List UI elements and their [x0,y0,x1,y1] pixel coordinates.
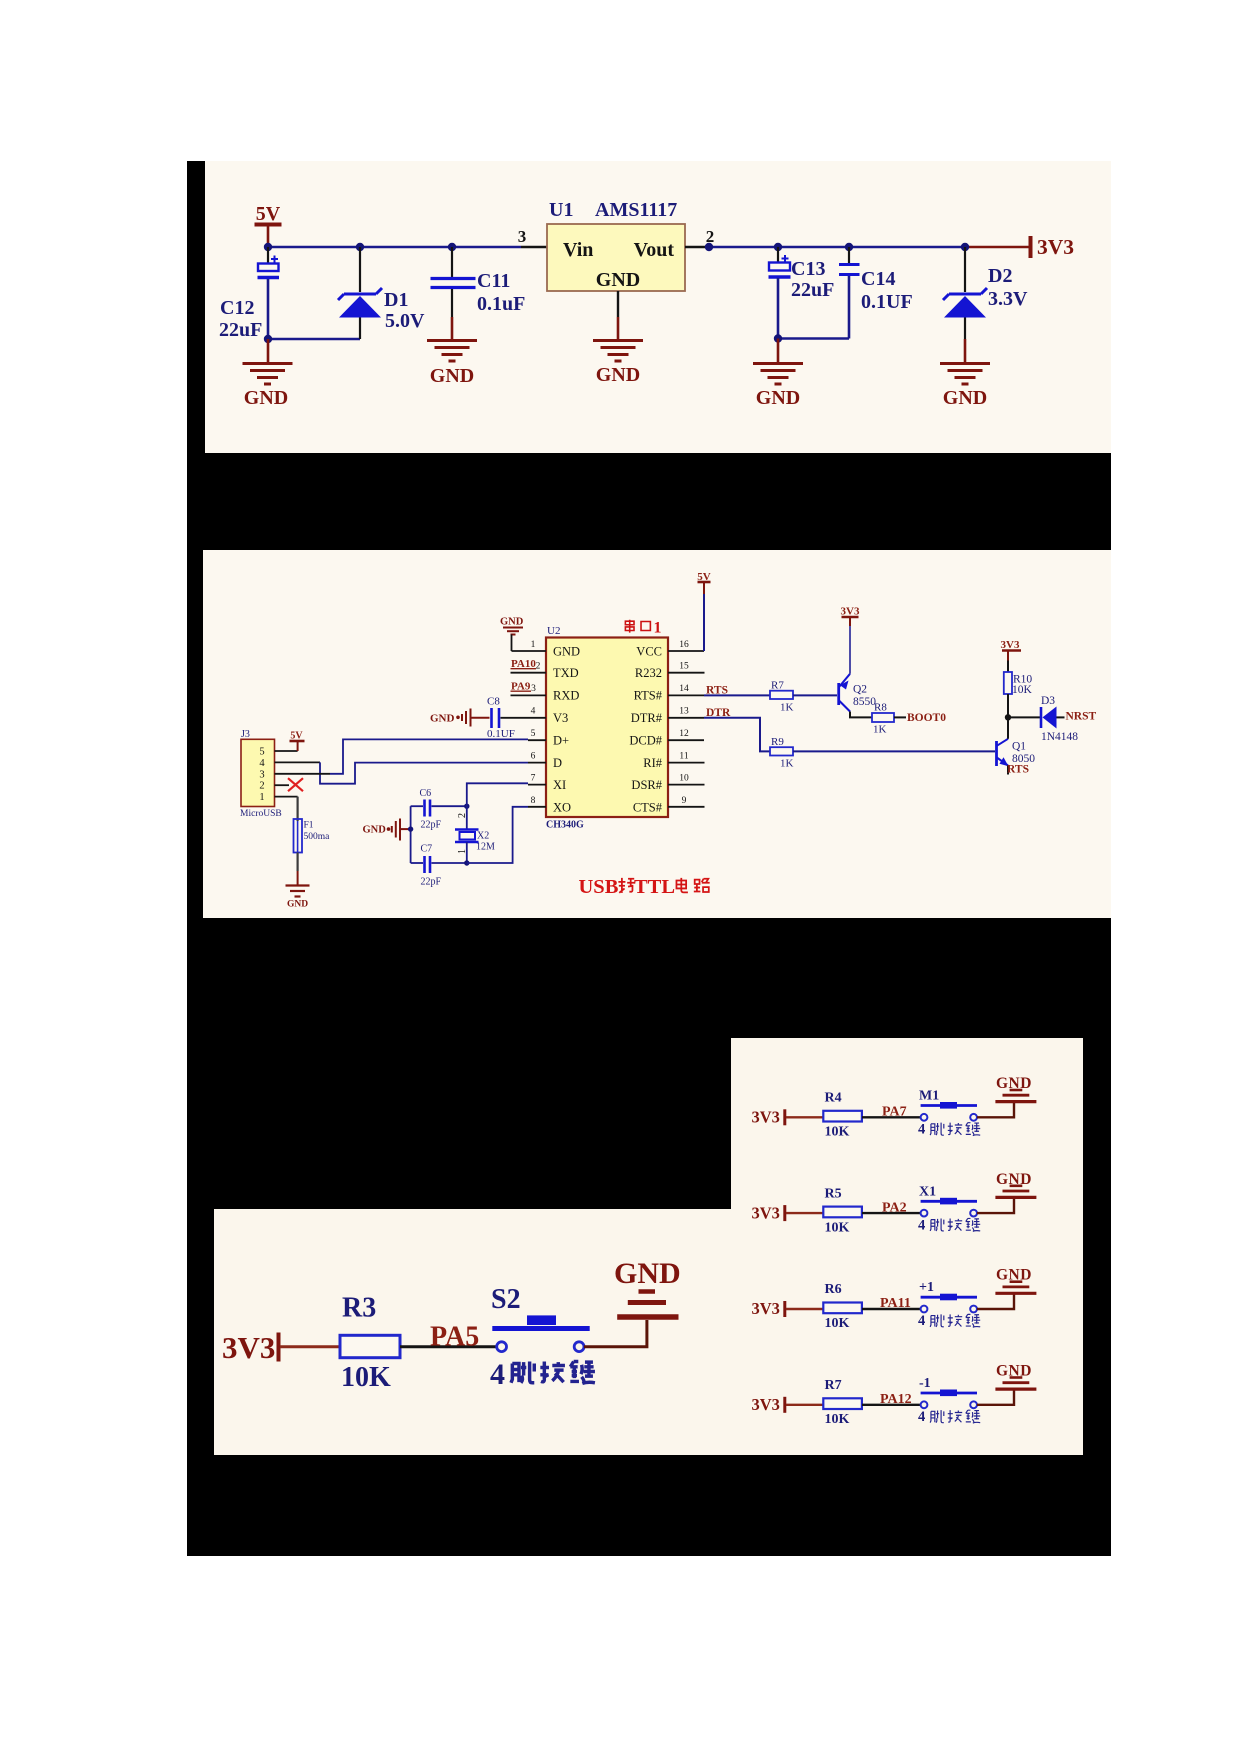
svg-text:1K: 1K [873,724,887,736]
node: C13 junction [774,243,782,251]
svg-text:XO: XO [553,801,571,815]
svg-text:4: 4 [918,1409,925,1425]
svg-text:3.3V: 3.3V [988,288,1028,310]
svg-text:GND: GND [996,1075,1032,1092]
svg-text:8: 8 [531,796,536,806]
svg-text:10K: 10K [1012,684,1033,696]
svg-text:C6: C6 [420,788,432,799]
title USB转TTL电路 [579,876,710,898]
node: C6/X2 junction [464,804,469,809]
svg-text:0.1uF: 0.1uF [477,293,525,315]
svg-text:1: 1 [259,792,264,803]
svg-text:C11: C11 [477,270,510,292]
svg-text:C13: C13 [791,258,825,280]
svg-text:3V3: 3V3 [752,1108,780,1127]
svg-text:0.1UF: 0.1UF [861,291,913,313]
svg-text:1: 1 [531,640,536,650]
svg-text:USB: USB [579,876,619,898]
node: Vout junction [705,243,713,251]
wire: junction to D3 [1008,716,1040,718]
U2 right pin stubs [668,651,705,807]
svg-text:R5: R5 [825,1186,842,1201]
svg-text:PA7: PA7 [882,1105,907,1120]
svg-text:GND: GND [596,269,640,291]
capacitor C6 22pF [411,805,423,807]
svg-text:GND: GND [943,387,987,409]
svg-text:U1: U1 [549,199,573,221]
svg-text:13: 13 [679,707,689,717]
svg-text:D+: D+ [553,734,569,748]
ground GND under C11 [427,317,477,361]
resistor R5 10K [823,1207,862,1218]
svg-text:R232: R232 [635,666,662,680]
svg-text:Q2: Q2 [853,684,867,696]
ground GND row3 (inverted) [995,1282,1036,1294]
capacitor C11 0.1uF [431,247,526,317]
svg-text:500ma: 500ma [304,832,331,842]
title 串口1 [625,620,650,633]
svg-text:1: 1 [654,620,662,637]
svg-text:4: 4 [918,1122,925,1138]
svg-text:2: 2 [536,662,541,672]
ground GND under C12 [243,339,293,384]
svg-text:GND: GND [430,713,455,725]
transistor Q2 8550 [839,674,850,712]
wire: 5V rail to U1 Vin [268,246,521,249]
node: R10/Q1/D3 junction [1005,714,1011,720]
svg-text:Q1: Q1 [1012,741,1026,753]
net label RTS on Q1 emitter [1007,766,1009,775]
node: gnd tap junction [408,826,413,831]
svg-text:1K: 1K [780,702,794,714]
diode D2 zener 3.3V [943,247,1028,339]
U2 right pin numbers 16-9 [679,640,689,806]
svg-text:X1: X1 [919,1184,936,1199]
svg-text:14: 14 [679,684,689,694]
svg-text:3V3: 3V3 [752,1395,780,1414]
svg-text:22pF: 22pF [421,820,442,831]
svg-text:GND: GND [996,1363,1032,1380]
capacitor C14 0.1UF [839,247,913,339]
svg-text:3V3: 3V3 [752,1203,780,1222]
resistor R9 1K [770,747,793,755]
capacitor C13 22uF electrolytic [769,247,835,339]
svg-text:15: 15 [679,662,689,672]
ground GND big (inverted) [617,1292,678,1318]
svg-text:RTS#: RTS# [634,689,663,703]
svg-text:10K: 10K [825,1125,850,1140]
svg-text:GND: GND [287,900,308,910]
ground GND under U1 [593,317,643,361]
capacitor C12 22uF electrolytic [219,247,279,341]
svg-text:16: 16 [679,640,689,650]
svg-text:3: 3 [518,227,527,246]
svg-text:CH340G: CH340G [546,820,584,831]
wire: key to GND row3 [977,1294,1014,1309]
wire: R7 to Q2 base [793,694,837,696]
svg-text:RTS: RTS [1007,764,1029,776]
wire: J3 pin4 to U2 D (crossover jog) [275,761,321,763]
svg-text:GND: GND [553,645,580,659]
transistor Q1 8050 [997,739,1009,766]
ground GND row4 (inverted) [995,1378,1036,1390]
ground GND under F1 [297,853,299,872]
svg-text:GND: GND [996,1171,1032,1188]
node: C11 junction [448,243,456,251]
svg-text:RI#: RI# [643,756,663,770]
svg-text:4: 4 [259,758,265,769]
svg-text:6: 6 [531,752,536,762]
svg-text:2: 2 [457,813,468,818]
svg-text:V3: V3 [553,711,568,725]
svg-text:R8: R8 [874,702,887,714]
svg-text:7: 7 [531,774,536,784]
svg-text:R4: R4 [825,1091,842,1106]
power port 5V at J3 pin5 [275,750,298,752]
svg-text:22pF: 22pF [421,877,442,888]
U2 left pin names [553,645,580,815]
wire: 3V3 to R5 [786,1212,823,1214]
svg-text:10K: 10K [825,1220,850,1235]
svg-text:DSR#: DSR# [631,778,662,792]
node: D1 junction [356,243,364,251]
svg-text:GND: GND [614,1257,681,1290]
svg-text:M1: M1 [919,1089,939,1104]
svg-text:GND: GND [363,825,387,836]
wire: R4 to key [862,1116,921,1118]
svg-text:3: 3 [259,769,264,780]
svg-text:10K: 10K [825,1412,850,1427]
U2 right pin names [629,645,662,815]
U2 left pin numbers 1-8 [531,640,541,806]
svg-text:-1: -1 [919,1376,931,1391]
svg-text:5V: 5V [256,203,281,225]
resistor R7 1K [770,691,793,699]
cream panel 3: four key rows schematic background [731,1038,1083,1455]
wire: key to GND row2 [977,1198,1014,1213]
svg-text:10K: 10K [341,1362,391,1393]
wire: C13 bottom to C14 bottom [778,337,849,340]
wire: bottom rail to XO [467,807,528,863]
resistor R3 10K [340,1335,400,1357]
wire: U1 Vout to 3V3 [685,246,711,248]
svg-text:AMS1117: AMS1117 [595,199,677,221]
cream panel 2: USB-TTL schematic background [203,550,1111,918]
svg-text:2: 2 [259,781,264,792]
node: C12 bottom junction [264,335,272,343]
svg-text:VCC: VCC [636,645,662,659]
cream panel 4: big key schematic background [214,1209,731,1455]
resistor R8 1K [872,713,894,722]
no connect X on J3 pin2 [275,784,290,786]
svg-text:3V3: 3V3 [752,1299,780,1318]
svg-text:R9: R9 [771,736,784,748]
svg-text:12: 12 [679,729,689,739]
svg-text:GND: GND [596,364,640,386]
svg-text:PA2: PA2 [882,1200,907,1215]
svg-text:F1: F1 [304,821,314,831]
ground GND row2 (inverted) [995,1186,1036,1198]
ground GND row1 (inverted) [995,1090,1036,1102]
svg-text:R7: R7 [771,680,784,692]
wire: key to GND row4 [977,1390,1014,1405]
svg-text:XI: XI [553,778,566,792]
svg-text:10K: 10K [825,1316,850,1331]
J3 pin numbers [259,747,265,804]
node: C14 junction [845,243,853,251]
svg-text:C7: C7 [421,844,433,855]
svg-text:22uF: 22uF [219,319,262,341]
capacitor C7 22pF [411,862,423,864]
U2 left pin stubs [501,651,547,807]
svg-text:10: 10 [679,774,689,784]
diode D3 1N4148 [1041,695,1078,743]
svg-text:+1: +1 [919,1280,934,1295]
wire: R6 to key [862,1308,921,1310]
wire: 3V3 to R6 [786,1308,823,1310]
svg-text:5V: 5V [697,571,711,583]
wire: C12 bottom to D1 bottom [268,338,360,341]
svg-text:D: D [553,756,562,770]
ground GND under C13 [753,339,803,385]
wire: U1 GND pin down [617,291,619,317]
wire: 3V3 to R7 [786,1404,823,1406]
crystal circuit: left rail [410,806,412,863]
node: D2 junction [961,243,969,251]
wire: 3V3 to R4 [786,1116,823,1118]
svg-text:RXD: RXD [553,689,579,703]
node: 5V junction [264,243,272,251]
svg-text:D3: D3 [1041,695,1055,707]
resistor R4 10K [823,1111,862,1122]
power port 3V3 [1029,236,1033,258]
black backdrop of scanned schematic figure [187,161,1111,1556]
wire: key to GND big [584,1320,647,1347]
cream panel 1: power supply schematic background [205,161,1111,453]
svg-text:U2: U2 [547,625,560,637]
wire: R8 to BOOT0 [894,716,906,718]
svg-text:R7: R7 [825,1378,842,1393]
svg-text:8550: 8550 [853,696,876,708]
svg-text:3: 3 [531,684,536,694]
wire: J3 pin3 to U2 D+ [275,773,331,775]
wire: Q1 collector up [1007,717,1009,739]
svg-text:4: 4 [918,1217,925,1233]
wire: R5 to key [862,1212,921,1214]
svg-text:Vin: Vin [563,239,593,261]
svg-text:GND: GND [244,387,288,409]
svg-text:C8: C8 [487,696,500,708]
svg-text:5: 5 [259,747,264,758]
svg-text:PA12: PA12 [880,1392,912,1407]
crystal X2 12M [455,830,479,843]
svg-text:9: 9 [682,796,687,806]
power port 5V above VCC [703,594,705,651]
svg-text:C14: C14 [861,268,895,290]
svg-text:1K: 1K [780,758,794,770]
svg-text:TXD: TXD [553,666,579,680]
svg-text:CTS#: CTS# [633,801,663,815]
svg-text:TTL: TTL [634,876,675,898]
svg-text:R6: R6 [825,1282,842,1297]
wire: XI vertical [467,783,528,829]
wire: X2 bottom [466,842,468,863]
wire: 3V3 to R3 [280,1345,340,1348]
svg-text:4: 4 [918,1313,925,1329]
wire: R3 to key [400,1345,497,1348]
svg-text:S2: S2 [491,1284,521,1315]
node: C13 bottom junction [774,334,782,342]
svg-text:C12: C12 [220,297,254,319]
wire: Q2 collector to R8 [850,712,872,718]
diode D1 zener 5.0V [338,247,425,339]
wire: R9 to Q1 base [793,750,995,752]
ground mini GND above pin 1 [503,628,523,635]
svg-text:4: 4 [490,1358,505,1391]
svg-text:22uF: 22uF [791,279,834,301]
svg-text:3V3: 3V3 [222,1330,275,1365]
svg-text:Vout: Vout [634,239,675,261]
resistor R7 10K [823,1398,862,1409]
svg-text:NRST: NRST [1066,711,1097,723]
svg-text:DCD#: DCD# [629,734,662,748]
svg-text:GND: GND [756,387,800,409]
svg-text:D1: D1 [384,289,408,311]
node: C7/X2 junction [464,860,469,865]
svg-text:12M: 12M [476,842,495,853]
svg-text:3V3: 3V3 [1037,235,1074,259]
svg-text:5V: 5V [290,731,303,742]
svg-text:4: 4 [531,707,536,717]
IC U2 CH340G body [546,638,668,818]
wire: DTR# jog to R9 [704,718,770,752]
svg-text:GND: GND [430,365,474,387]
capacitor C8 0.1UF with gnd tap [430,696,515,741]
svg-text:X2: X2 [477,831,489,842]
svg-text:D2: D2 [988,265,1012,287]
fuse F1 500ma [275,796,298,798]
regulator U1 AMS1117 [547,199,685,291]
svg-text:PA11: PA11 [880,1296,911,1311]
svg-text:BOOT0: BOOT0 [907,712,946,724]
svg-text:0.1UF: 0.1UF [487,728,515,740]
svg-text:DTR#: DTR# [631,711,663,725]
svg-text:11: 11 [679,752,688,762]
connector J3 MicroUSB [241,739,275,806]
svg-text:MicroUSB: MicroUSB [240,809,282,819]
svg-text:PA5: PA5 [430,1322,479,1353]
svg-text:J3: J3 [241,729,250,740]
resistor R6 10K [823,1303,862,1314]
wire: RTS# to R7 [704,694,770,696]
svg-text:5: 5 [531,729,536,739]
svg-text:1N4148: 1N4148 [1041,731,1078,743]
svg-text:GND: GND [996,1267,1032,1284]
wire: R7 to key [862,1404,921,1406]
wire: key to GND row1 [977,1103,1014,1118]
svg-text:5.0V: 5.0V [385,310,425,332]
wire: gnd symbol to pin 1 [511,635,513,652]
power port 5V [255,225,282,246]
svg-text:R3: R3 [342,1293,376,1324]
svg-text:GND: GND [500,617,524,628]
ground GND under D2 [940,339,990,384]
